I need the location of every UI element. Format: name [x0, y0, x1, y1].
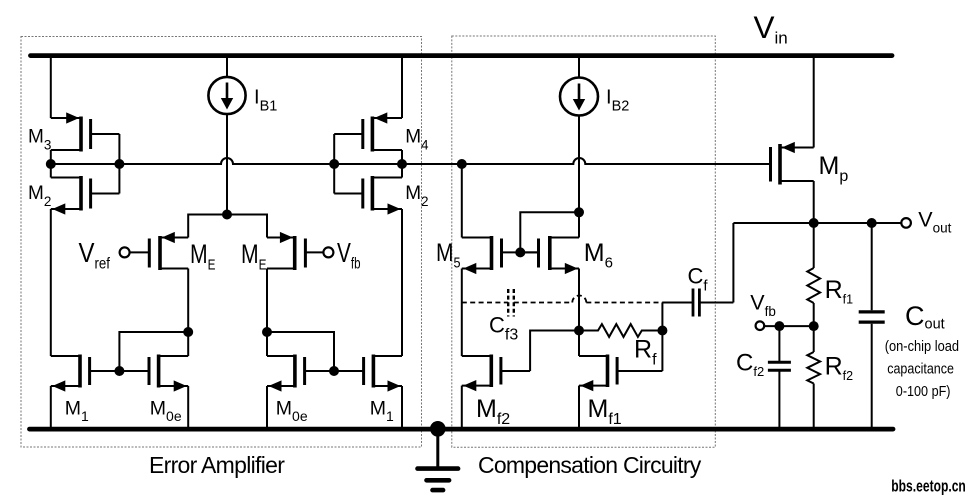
compensation circuitry dashed box [452, 36, 716, 447]
wire Vfb node [764, 325, 814, 327]
resistor Rf1 [807, 268, 820, 303]
node dot diff pair tail [222, 210, 232, 220]
capacitor Cout [859, 312, 885, 322]
node dot gate bus right wire [397, 159, 407, 169]
wire Cf right lead [699, 223, 733, 303]
wire M5 source down [461, 269, 463, 357]
wire Rf1 top [813, 223, 815, 268]
node dot M3 M2 gates [114, 159, 124, 169]
svg-text:capacitance: capacitance [887, 361, 954, 377]
transistor M2 left [51, 176, 120, 215]
terminal Vfb right [756, 321, 765, 330]
transistor Mf2 [462, 355, 530, 392]
terminal Vfb mid [323, 247, 333, 257]
capacitor Cf2 [768, 362, 791, 370]
node dot mirror gate left [114, 366, 124, 376]
output line [733, 222, 901, 224]
wire M5 drain riser [461, 164, 463, 238]
wire left column mid [50, 150, 52, 178]
ground junction dot [430, 421, 446, 437]
transistor M0e left [119, 355, 188, 392]
transistor Mp [771, 142, 814, 185]
node dot mirror drain right [262, 327, 272, 337]
node dot gate bus left wire [46, 159, 56, 169]
node dot Vfb lead [774, 321, 784, 331]
wire Cout bottom to ground [871, 324, 873, 428]
wire Rf2 top [813, 326, 815, 352]
transistor M2 right [334, 176, 402, 215]
wire left column lower [50, 209, 52, 356]
wire Cf2 top [778, 326, 780, 362]
wire bottom-left gate feedback [119, 332, 188, 371]
capacitor Cf [693, 289, 699, 317]
transistor M4 [334, 112, 402, 151]
svg-text:Error Amplifier: Error Amplifier [149, 452, 285, 478]
wire Rf1 bottom [813, 303, 815, 326]
error amplifier dashed box [21, 37, 422, 448]
ground rail [30, 427, 894, 432]
wire Rf2 bottom to ground [813, 384, 815, 428]
wire Mf1 source to ground [578, 386, 580, 430]
Vin rail [31, 53, 893, 58]
transistor M6 [520, 236, 579, 274]
transistor M3 [51, 112, 120, 151]
dashed feedforward line right [586, 302, 662, 304]
wire bottom-right gate feedback [267, 332, 334, 371]
node dot Rf left [574, 326, 584, 336]
terminal Vout [901, 218, 911, 228]
wire Cout top [871, 223, 873, 310]
terminal Vref [120, 247, 130, 257]
wire Mf2 gate link [530, 331, 579, 372]
capacitor Cf3 dashed plates [508, 289, 514, 317]
node dot M6 drain [574, 207, 584, 217]
node dot Vfb Rf divider [809, 321, 819, 331]
wire Mf1 gate riser [661, 331, 663, 372]
wire left column to ground [50, 386, 52, 430]
dashed feedforward line mid [514, 302, 573, 304]
transistor M1 right [334, 355, 402, 392]
node dot M4 M2 gates [329, 159, 339, 169]
diff pair tail bar [188, 215, 267, 238]
wire M6 drain down [578, 269, 580, 331]
svg-text:(on-chip load: (on-chip load [885, 339, 959, 355]
wire left column top [50, 56, 52, 118]
dashed hop over M6 wire [572, 296, 586, 303]
transistor M1 left [51, 355, 120, 392]
ground [418, 430, 459, 491]
dashed feedforward line left [462, 302, 508, 304]
wire bottom-left to ground [187, 386, 189, 430]
current source IB2 [560, 56, 598, 238]
wire Mp drain down [813, 181, 815, 223]
node dot output Mp [809, 218, 819, 228]
wire Mf1 drain [578, 331, 580, 357]
wire M3 M2 gate riser [118, 134, 120, 194]
node dot gate bus M5 [457, 159, 467, 169]
wire Mp source up [813, 56, 815, 148]
wire right column mid [401, 150, 403, 178]
gate bus line with hops [51, 158, 771, 164]
wire ME right source down [266, 269, 268, 357]
wire right column to ground [401, 386, 403, 430]
wire M4 gate riser [333, 134, 335, 194]
resistor Rf2 [807, 352, 820, 383]
node dot M5 M6 gates [515, 247, 525, 257]
transistor ME left [129, 232, 188, 270]
wire Cf2 bottom to ground [778, 370, 780, 427]
wire M6 diode link [520, 212, 579, 252]
node dot output Cout [867, 218, 877, 228]
transistor ME right [267, 232, 324, 270]
svg-text:0-100 pF): 0-100 pF) [896, 384, 951, 400]
transistor M0e right [267, 355, 334, 392]
node dot Rf right [657, 326, 667, 336]
node dot mirror gate right [329, 366, 339, 376]
transistor Mf1 [579, 355, 662, 392]
transistor M5 [462, 236, 539, 274]
wire right column top [401, 56, 403, 118]
wire bottom-right to ground [266, 386, 268, 430]
wire Mf2 source to ground [461, 386, 463, 430]
svg-text:bbs.eetop.cn: bbs.eetop.cn [891, 478, 966, 496]
current source IB1 [208, 56, 245, 215]
node dot mirror drain left [183, 327, 193, 337]
wire ME left source down [187, 269, 189, 357]
wire right column lower [401, 209, 403, 356]
resistor Rf [579, 324, 662, 337]
svg-text:Compensation Circuitry: Compensation Circuitry [478, 452, 702, 478]
wire Cf left node [662, 303, 693, 331]
